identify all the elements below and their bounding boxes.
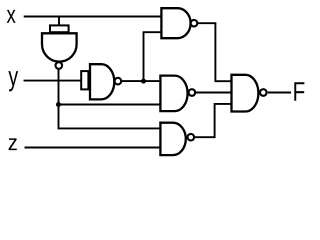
NAND inverter G1 body (vertical, x-bar) xyxy=(42,33,77,61)
NAND inverter G2 bubble xyxy=(115,78,122,85)
NAND gate U3 bubble xyxy=(188,134,195,141)
NAND inverter G1 bubble xyxy=(56,62,63,69)
wire U3 output to gate U4 xyxy=(194,104,231,137)
wire y-bar riser to gate U1 xyxy=(144,32,162,81)
input label y xyxy=(8,71,18,91)
wire U1 output to gate U4 xyxy=(197,23,231,81)
wire G2 output (y-bar) to gate U2 xyxy=(121,80,160,82)
wire stub x to inverter G1 xyxy=(58,17,60,26)
output label F xyxy=(294,82,304,101)
NAND inverter G1 tied-input box xyxy=(50,25,69,32)
NAND gate U2 bubble xyxy=(189,89,196,96)
input label x xyxy=(7,10,16,23)
NAND gate U3 body (bottom) xyxy=(160,123,185,155)
wire y input to inverter G2 xyxy=(24,80,82,82)
junction dot node xbar xyxy=(56,102,61,107)
junction dot node ybar xyxy=(141,79,146,84)
wire x-bar branch to gate U2 xyxy=(59,104,161,106)
NAND gate U1 body (top) xyxy=(161,8,190,38)
NAND inverter G2 tied-input box xyxy=(81,71,88,89)
wire U4 output to F xyxy=(268,92,291,94)
wire U2 output to gate U4 xyxy=(195,92,231,94)
NAND gate U2 body (middle) xyxy=(160,76,187,112)
input label z xyxy=(9,138,17,150)
wire x input to gate U1 xyxy=(24,16,162,18)
NAND inverter G2 body (y-bar) xyxy=(90,64,114,99)
wire z input to gate U3 xyxy=(25,147,161,149)
wire G1 output (x-bar) vertical xyxy=(59,69,161,128)
NAND gate U4 body (output) xyxy=(232,75,259,112)
NAND gate U1 bubble xyxy=(191,20,198,27)
NAND gate U4 bubble xyxy=(260,89,267,96)
